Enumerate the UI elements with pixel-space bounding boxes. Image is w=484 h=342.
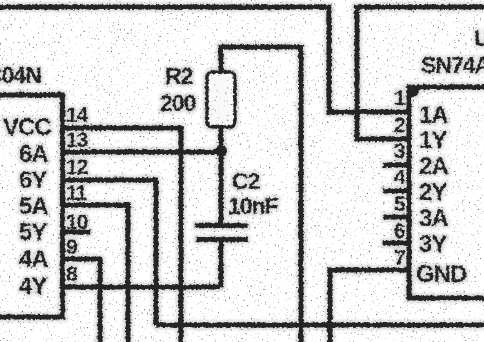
wire U2 pin 4 stub [383,189,409,194]
wire U2 pin 7 GND down [330,270,409,342]
IC U2 body (SN74 buffer, right, clipped at edge) [409,87,484,298]
node U2 pin1 marker dot [407,85,419,97]
node junction R2/C2/pin13 [215,145,227,157]
IC U1 body (hex inverter xx04N, left, clipped at edge) [0,95,63,317]
wire net1 drop to U2 pin 1 [329,5,409,112]
wire U2 pin 6 stub [383,241,409,246]
wire R2 top lead to long vertical [221,47,301,72]
wire U1 pin 12 down to bottom bus [62,180,156,325]
wire U1 pin 8 to C2 bottom [62,285,220,290]
wire U2 pin 3 stub [383,163,409,168]
wire net2 drop to U2 pin 2 [357,5,409,139]
capacitor C2 bottom plate [196,237,248,242]
wire R2 bottom lead through junction to C2 top [219,127,224,224]
wire net1 top rail left [0,5,329,10]
wire long vertical from R2 net [299,45,304,342]
wire U1 pin 9 down [62,259,100,342]
resistor R2 body [207,72,235,127]
wire net2 top rail right [357,5,484,10]
wire U1 pin 10 stub [62,230,90,235]
wire U1 pin 13 to R2/C2 junction [62,150,221,155]
wire bottom bus [156,323,484,328]
capacitor C2 top plate [195,223,248,228]
wire U2 pin 5 stub [383,215,409,220]
wire U1 pin 14 VCC to vertical [62,128,181,342]
wire C2 bottom lead down then left [219,240,224,287]
wire U1 pin 11 down [62,205,128,342]
